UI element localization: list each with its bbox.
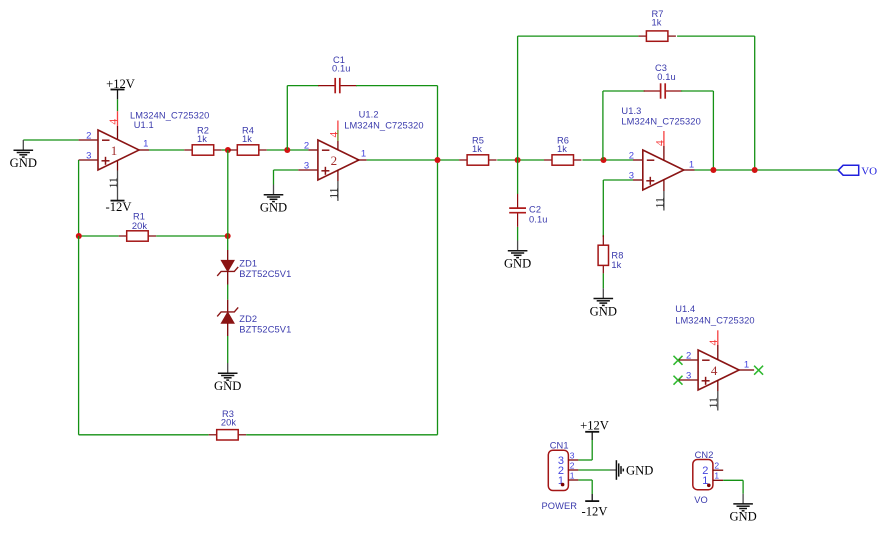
svg-text:1: 1: [744, 360, 749, 371]
wire bottom rail right: [246, 434, 437, 436]
wire bottom rail left: [79, 434, 209, 436]
svg-text:+12V: +12V: [580, 419, 609, 433]
svg-text:ZD2: ZD2: [239, 314, 257, 324]
wire C3 right leg down: [712, 91, 714, 170]
svg-text:-12V: -12V: [106, 200, 132, 214]
wire to R7: [518, 35, 639, 37]
wire ZD2 to ground: [227, 336, 229, 363]
resistor R1: [119, 231, 157, 241]
U1.3 pin 1 (output): [684, 169, 695, 171]
wire ZD1 to ZD2: [227, 285, 229, 300]
svg-text:2: 2: [714, 461, 719, 471]
wire U1.1 output to R2: [149, 149, 184, 151]
svg-text:BZT52C5V1: BZT52C5V1: [239, 325, 291, 335]
svg-text:1: 1: [570, 471, 575, 481]
U1.3 pin 11: [663, 180, 665, 211]
wire down to R8: [602, 180, 604, 237]
wire R8 to ground: [602, 273, 604, 288]
CN2 pin 1 marker dot: [707, 484, 711, 488]
CN1 pin 2: [568, 469, 578, 471]
svg-text:11: 11: [108, 177, 120, 188]
net flag VO: [838, 165, 877, 177]
svg-text:GND: GND: [590, 304, 617, 318]
svg-text:1k: 1k: [472, 144, 482, 154]
CN2 pin 1: [713, 479, 723, 481]
resistor R8: [598, 235, 608, 273]
U1.2 pin 11: [337, 170, 339, 201]
junction R5/R6/C2/R7: [515, 157, 521, 163]
wire R2 to node: [222, 149, 230, 151]
svg-text:1: 1: [714, 471, 719, 481]
U1.3 pin 3: [633, 179, 643, 181]
wire node down from R2/R4 junction: [227, 150, 229, 236]
resistor R5: [459, 155, 497, 165]
svg-text:3: 3: [570, 450, 575, 460]
svg-text:LM324N_C725320: LM324N_C725320: [675, 316, 754, 326]
svg-text:2: 2: [304, 141, 309, 152]
wire R6 to U1.3 pin 2: [582, 159, 633, 161]
CN1 pin 1: [568, 479, 578, 481]
svg-text:4: 4: [108, 119, 120, 125]
ground (U1.1 pin 2): [10, 140, 37, 170]
U1.1 pin 4: [117, 111, 119, 139]
svg-text:11: 11: [708, 397, 720, 408]
U1.4 pin 4: [717, 330, 719, 360]
wire R7 right: [677, 35, 755, 37]
svg-text:GND: GND: [729, 510, 756, 524]
svg-text:1k: 1k: [242, 134, 252, 144]
svg-text:GND: GND: [626, 464, 653, 478]
svg-text:GND: GND: [260, 201, 287, 215]
U1.4 pin 11: [717, 380, 719, 410]
resistor R3: [209, 430, 247, 440]
svg-text:1k: 1k: [197, 134, 207, 144]
svg-text:4: 4: [655, 140, 667, 146]
wire U1.3 output to VO: [695, 169, 839, 171]
svg-text:VO: VO: [694, 495, 708, 505]
ZD2 cathode stub: [227, 300, 229, 312]
svg-text:3: 3: [686, 371, 691, 382]
U1.2 pin 3: [298, 169, 318, 171]
junction C3 right: [710, 167, 716, 173]
junction R2/R4/R1 node: [225, 147, 231, 153]
svg-text:11: 11: [328, 187, 340, 198]
op-amp U1.1: [98, 130, 139, 170]
svg-text:U1.1: U1.1: [134, 120, 154, 130]
ZD2 anode stub: [227, 323, 229, 336]
svg-text:0.1u: 0.1u: [332, 64, 351, 74]
capacitor C1: [318, 78, 357, 93]
resistor R2: [184, 145, 222, 155]
op-amp U1.2: [318, 140, 359, 180]
resistor R7: [638, 31, 676, 41]
svg-text:2: 2: [629, 151, 634, 162]
U1.4 pin 2: [679, 359, 698, 361]
wire R7 right leg down: [754, 36, 756, 170]
wire R7 left leg: [517, 36, 519, 160]
resistor R4: [229, 145, 266, 155]
wire down to ground: [742, 480, 744, 493]
junction R7 right: [752, 167, 758, 173]
U1.3 pin 4: [663, 131, 665, 160]
svg-text:3: 3: [304, 161, 309, 172]
wire down to -12V: [591, 480, 593, 494]
ground (zener chain): [214, 363, 241, 393]
wire C1 right: [356, 85, 438, 87]
junction R1 left: [76, 233, 82, 239]
wire up to +12V: [591, 440, 593, 460]
svg-text:1: 1: [361, 148, 366, 159]
wire CN1 pin 2 to GND: [578, 469, 610, 471]
op-amp U1.4: [698, 350, 739, 390]
svg-text:CN1: CN1: [550, 441, 569, 451]
wire U1.2 pin 3 ground drop: [273, 170, 275, 185]
op-amp U1.3: [643, 150, 684, 190]
wire node A vertical lower: [78, 236, 80, 435]
svg-text:2: 2: [331, 153, 338, 168]
U1.2 pin 2: [308, 149, 318, 151]
CN1 pin 3: [568, 459, 578, 461]
U1.1 pin 2: [79, 139, 98, 141]
U1.2 pin 1 (output): [357, 159, 367, 161]
wire GND to U1.2 pin 3: [274, 169, 299, 171]
wire C3 right: [681, 90, 713, 92]
ground (CN2): [729, 494, 756, 524]
junction R1 right / zener chain: [225, 233, 231, 239]
CN2 pin 2: [713, 469, 723, 471]
CN1 outside pin numbers: [570, 450, 575, 480]
svg-text:2: 2: [86, 131, 91, 142]
svg-text:BZT52C5V1: BZT52C5V1: [239, 269, 291, 279]
wire CN2 pin 1 to ground: [723, 479, 743, 481]
wire C2 to ground: [517, 227, 519, 241]
svg-text:LM324N_C725320: LM324N_C725320: [621, 117, 700, 127]
svg-text:1: 1: [689, 160, 694, 171]
power flag +12V (CN1): [580, 419, 609, 440]
svg-text:4: 4: [708, 340, 720, 346]
power flag -12V (U1.1 pin 11): [106, 200, 132, 214]
CN1 pin 1 marker dot: [561, 483, 565, 487]
svg-text:11: 11: [654, 197, 666, 208]
U1.1 pin 3: [79, 159, 98, 161]
svg-text:ZD1: ZD1: [239, 259, 257, 269]
CN1 inside pin numbers: [558, 455, 564, 487]
wire +12V to U1.1 pin 4: [117, 99, 119, 111]
svg-text:1k: 1k: [611, 260, 621, 270]
U1.1 pin 11: [117, 161, 119, 201]
svg-text:C2: C2: [529, 204, 541, 214]
power flag -12V (CN1): [582, 494, 608, 519]
svg-text:4: 4: [711, 363, 718, 378]
ground (CN1 pin 2, sideways): [610, 460, 653, 480]
svg-text:R8: R8: [611, 250, 623, 260]
ZD1 anode stub: [227, 250, 229, 260]
no-connect X (U1.4 pin 3): [674, 376, 683, 385]
svg-text:GND: GND: [214, 379, 241, 393]
ground (U1.2 pin 3): [260, 185, 287, 215]
junction C3 left / U1.3 input: [601, 157, 607, 163]
wire GND to U1.1 pin 2: [23, 139, 78, 141]
svg-text:0.1u: 0.1u: [657, 72, 676, 82]
svg-text:U1.3: U1.3: [621, 106, 641, 116]
connector CN2 body: [693, 460, 713, 490]
svg-text:VO: VO: [861, 165, 877, 177]
wire R8 node to U1.3 pin 3: [603, 179, 633, 181]
svg-text:CN2: CN2: [695, 450, 714, 460]
svg-text:3: 3: [86, 151, 91, 162]
capacitor C2: [509, 194, 526, 227]
junction C1 left / U1.2 input: [284, 147, 290, 153]
zener diode ZD1: [217, 260, 238, 276]
svg-text:0.1u: 0.1u: [529, 215, 548, 225]
svg-text:1k: 1k: [651, 18, 661, 28]
CN2 outside pin numbers: [714, 461, 719, 481]
svg-text:POWER: POWER: [542, 501, 578, 511]
junction feedback/output node: [435, 157, 441, 163]
svg-text:2: 2: [686, 351, 691, 362]
wire CN1 pin 1: [578, 479, 592, 481]
svg-text:U1.2: U1.2: [359, 110, 379, 120]
ZD1 cathode stub: [227, 272, 229, 285]
wire node A vertical upper: [78, 160, 80, 236]
wire C3 left: [603, 90, 645, 92]
svg-text:2: 2: [570, 460, 575, 470]
svg-text:GND: GND: [10, 156, 37, 170]
svg-text:20k: 20k: [132, 221, 148, 231]
ground (C2): [504, 241, 531, 271]
U1.1 pin 1 (output): [139, 149, 149, 151]
svg-text:1k: 1k: [557, 144, 567, 154]
svg-text:+12V: +12V: [106, 77, 135, 91]
svg-text:20k: 20k: [221, 418, 237, 428]
wire C1 right leg / feedback vertical: [437, 86, 439, 435]
wire C3 left leg: [602, 91, 604, 160]
wire U1.2 output to R5: [367, 159, 459, 161]
svg-text:4: 4: [329, 132, 341, 138]
no-connect X (U1.4 pin 2): [674, 356, 683, 365]
svg-text:LM324N_C725320: LM324N_C725320: [344, 121, 423, 131]
U1.4 pin 1 (output): [739, 369, 754, 371]
U1.4 pin 3: [679, 379, 698, 381]
resistor R6: [544, 155, 582, 165]
wire CN1 pin 3: [578, 459, 592, 461]
svg-text:1: 1: [143, 138, 148, 149]
wire C1 left leg down: [286, 86, 288, 150]
svg-text:1: 1: [111, 143, 118, 158]
no-connect X (U1.4 pin 1): [754, 366, 763, 375]
zener diode ZD2: [217, 307, 238, 323]
wire R1 to node: [156, 235, 228, 237]
wire to ZD1: [227, 236, 229, 250]
power flag +12V (U1.1 pin 4): [106, 77, 135, 100]
svg-text:GND: GND: [504, 257, 531, 271]
wire R5 to R6: [497, 159, 544, 161]
wire node to C2: [517, 160, 519, 194]
ground (R8): [590, 288, 617, 318]
wire to R1: [79, 235, 119, 237]
connector CN1 body: [548, 450, 568, 490]
wire C1 left: [287, 85, 319, 87]
U1.2 pin 4: [337, 121, 339, 151]
svg-text:U1.4: U1.4: [675, 304, 695, 314]
svg-text:-12V: -12V: [582, 505, 608, 519]
U1.3 pin 2: [633, 159, 643, 161]
wire R4 to U1.2 pin 2: [267, 149, 309, 151]
CN2 inside pin numbers: [702, 465, 708, 487]
capacitor C3: [644, 83, 683, 98]
